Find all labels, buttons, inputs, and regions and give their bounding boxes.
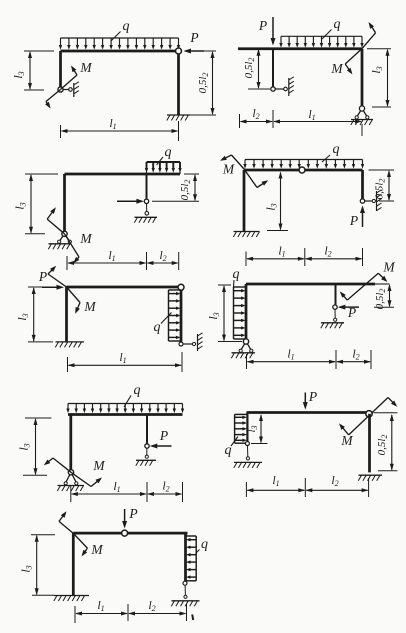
frame 5 right column: [180, 287, 183, 343]
frame 1 beam: [61, 50, 179, 53]
frame 4 left column: [243, 170, 246, 231]
svg-text:M: M: [92, 458, 105, 473]
frame 9 force P: [122, 506, 138, 529]
svg-text:P: P: [308, 389, 317, 404]
frame 2 dimension l3: [367, 49, 391, 107]
frame 1 distributed load q: [59, 38, 180, 50]
frame 6 left column: [245, 284, 248, 339]
frame 6 interior strut: [335, 284, 337, 305]
frame 9 dimension l2: [128, 598, 187, 621]
frame 9 distributed load q on column: [186, 536, 197, 581]
frame 3 left column: [63, 174, 66, 231]
svg-text:M: M: [382, 260, 395, 275]
frame 4 force P: [349, 206, 365, 229]
frame 3 beam: [65, 173, 181, 176]
frame 2 dimension l1: [273, 107, 362, 136]
frame 4 moment M: [220, 155, 268, 188]
svg-text:0,5l2: 0,5l2: [179, 180, 192, 201]
frame 8 dimension l2: [305, 473, 368, 497]
frame 2 distributed load q: [279, 36, 363, 47]
frame 1 top-right hinge: [176, 48, 182, 54]
frame 6 strut roller support: [321, 309, 344, 328]
frame 4 fixed support: [233, 232, 259, 238]
frame 9 left fixed support: [54, 596, 89, 602]
frame 7 dimension l3: [17, 418, 52, 475]
frame 7 strut roller support: [136, 448, 156, 466]
svg-text:l1: l1: [287, 347, 294, 362]
frame 4 dimension l2: [305, 244, 363, 267]
frame 7 left pin support: [57, 470, 84, 491]
frame 4 load label q: [322, 142, 340, 162]
svg-text:l1: l1: [113, 479, 120, 494]
frame 8 left column: [246, 413, 248, 443]
svg-text:q: q: [134, 383, 141, 398]
frame 5 fixed support: [55, 342, 84, 348]
frame 8 load label q: [225, 437, 239, 459]
frame 8 fixed support: [358, 475, 382, 481]
frame 4 dimension l3: [264, 172, 289, 231]
svg-text:q: q: [333, 142, 340, 157]
svg-text:l2: l2: [331, 473, 338, 488]
frame 9 moment M: [59, 511, 103, 557]
frame 1 left column: [59, 51, 62, 88]
svg-text:l2: l2: [159, 248, 166, 263]
svg-text:P: P: [349, 213, 358, 228]
frame 9 internal hinge: [122, 530, 128, 536]
frame 2 dimension l2: [240, 106, 274, 128]
svg-text:M: M: [340, 433, 353, 448]
frame 3 moment M: [47, 207, 92, 263]
frame 5 left column: [65, 287, 68, 342]
svg-text:q: q: [201, 537, 208, 552]
svg-text:l2: l2: [324, 244, 331, 259]
frame 5 load label q: [154, 313, 172, 336]
frame 1 moment M: [45, 60, 92, 109]
frame 8 force P: [303, 389, 317, 410]
svg-text:P: P: [38, 269, 47, 284]
svg-text:l3: l3: [15, 313, 30, 320]
svg-text:l2: l2: [148, 598, 155, 613]
frame 8 distributed load q on column: [235, 414, 248, 443]
stray ink mark: [192, 615, 193, 621]
frame 2 beam: [238, 47, 362, 50]
svg-text:l3: l3: [19, 565, 34, 572]
frame 2 hanger strut: [272, 49, 274, 87]
frame 6 left pin support: [231, 339, 255, 358]
frame 5 distributed load q on column: [169, 290, 182, 341]
frame 6 moment M: [340, 260, 396, 301]
svg-text:P: P: [159, 428, 168, 443]
frame 9 dimension l3: [19, 535, 56, 596]
frame 8 dimension l3: [246, 414, 268, 444]
frame 3 dimension l1: [67, 248, 147, 270]
frame 4 dimension 0,5l2: [369, 170, 395, 201]
frame 4 right hinge: [360, 199, 364, 203]
frame 7 load label q: [124, 383, 141, 407]
frame 4 distributed load q: [243, 160, 364, 169]
frame 5 dimension l1: [68, 350, 183, 372]
svg-text:0,5l2: 0,5l2: [374, 179, 387, 200]
frame 1 right column: [177, 51, 180, 115]
frame 4 beam: [244, 169, 363, 172]
svg-text:P: P: [347, 305, 356, 320]
frame 6 dimension l3: [206, 285, 242, 342]
frame 5 force P: [38, 269, 64, 290]
frame 1 force P: [184, 30, 205, 54]
svg-text:l3: l3: [11, 71, 26, 78]
frame 6 load label q: [233, 267, 240, 287]
svg-text:q: q: [233, 267, 240, 282]
svg-text:M: M: [90, 542, 103, 557]
frame 2 pin support: [351, 106, 373, 125]
frame 7 interior strut: [146, 415, 148, 445]
svg-text:l3: l3: [264, 203, 279, 210]
svg-text:l1: l1: [109, 116, 116, 131]
svg-text:M: M: [83, 299, 96, 314]
svg-text:l1: l1: [108, 248, 115, 263]
svg-text:0,5l2: 0,5l2: [243, 58, 256, 79]
frame 2 strut link support with wall: [275, 77, 294, 96]
svg-text:l3: l3: [17, 443, 32, 450]
svg-text:0,5l2: 0,5l2: [374, 289, 387, 310]
frame 9 beam: [73, 532, 187, 535]
frame 3 strut hinge with horizontal arrow: [117, 199, 149, 204]
frame 1 dimension 0,5l2: [185, 51, 216, 115]
frame 4 right link support with wall: [365, 190, 382, 211]
frame 8 beam: [247, 411, 369, 414]
frame 9 dimension l1: [75, 598, 128, 623]
frame 1 left hinge: [58, 87, 63, 92]
frame 9 right hinge and roller support: [171, 581, 199, 606]
svg-text:q: q: [154, 320, 161, 335]
frame 2 moment M: [330, 22, 375, 76]
frame 3 load label q: [157, 145, 172, 165]
frame 5 dimension l3: [15, 287, 53, 342]
svg-text:M: M: [330, 61, 343, 76]
frame 6 dimension 0,5l2: [374, 284, 394, 309]
frame 3 dimension 0,5l2: [152, 174, 199, 201]
svg-text:l2: l2: [162, 479, 169, 494]
frame 9 right column: [184, 533, 187, 581]
frame 4 right column: [361, 170, 364, 200]
svg-text:l2: l2: [252, 106, 259, 121]
svg-text:l1: l1: [97, 598, 104, 613]
svg-text:P: P: [128, 506, 137, 521]
frame 7 moment M: [44, 458, 106, 487]
frame 8 left hinge and roller support: [234, 442, 262, 468]
frame 1 dimension l1: [61, 116, 179, 141]
frame 9 left column: [72, 533, 75, 595]
frame 3 dimension l3: [13, 174, 59, 234]
frame 3 left pin support: [48, 231, 71, 249]
frame 7 left column: [69, 415, 72, 471]
frame 2 load label q: [322, 17, 341, 39]
frame 7 beam: [68, 413, 183, 416]
svg-text:q: q: [225, 443, 232, 458]
frame 1 fixed support: [167, 115, 190, 121]
frame 7 dimension l1: [71, 479, 147, 502]
frame 5 beam: [67, 286, 182, 289]
frame 2 strut hinge: [271, 87, 275, 91]
frame 2 right column: [361, 49, 364, 106]
frame 7 strut hinge with force P: [145, 428, 172, 449]
svg-text:l3: l3: [206, 312, 221, 319]
frame 6 beam: [246, 283, 390, 286]
svg-text:M: M: [79, 60, 92, 75]
frame 6 distributed load q on column: [234, 287, 247, 339]
frame 4 internal hinge: [299, 167, 305, 173]
svg-text:l2: l2: [352, 347, 359, 362]
svg-text:l1: l1: [278, 244, 285, 259]
frame 2 force P: [258, 17, 276, 46]
frame 1 load label q: [111, 19, 130, 41]
frame 3 dimension l2: [147, 248, 179, 270]
frame 9 load label q: [196, 537, 208, 553]
frame 6 dimension l1: [247, 347, 337, 370]
svg-text:q: q: [123, 19, 130, 34]
frame 8 dimension l1: [246, 473, 305, 497]
frame 3 cantilever load q: [145, 162, 182, 174]
svg-text:l1: l1: [308, 107, 315, 122]
svg-text:0,5l2: 0,5l2: [197, 73, 210, 94]
frame 8 right hinge: [366, 411, 372, 417]
frame 3 interior strut: [146, 174, 148, 199]
frame 1 left link support with wall: [63, 82, 79, 97]
frame 5 bottom link support with wall: [179, 333, 203, 351]
svg-text:P: P: [189, 30, 198, 45]
frame 8 right column: [368, 414, 371, 473]
frame 5 top-right hinge: [178, 284, 184, 290]
svg-text:l1: l1: [119, 350, 126, 365]
svg-text:P: P: [258, 18, 267, 33]
frame 5 moment M: [48, 266, 96, 314]
frame 4 dimension l1: [246, 244, 305, 267]
frame 7 dimension l2: [147, 479, 183, 503]
svg-text:M: M: [222, 162, 235, 177]
svg-text:q: q: [334, 17, 341, 32]
svg-text:q: q: [165, 145, 172, 160]
frame 6 dimension l2: [336, 347, 371, 370]
svg-text:0,5l2: 0,5l2: [376, 435, 389, 456]
frame 8 moment M: [339, 398, 397, 449]
frame 3 strut roller support: [134, 204, 157, 223]
svg-text:M: M: [79, 231, 92, 246]
frame 1 dimension l3: [11, 51, 54, 90]
svg-text:l3: l3: [369, 66, 384, 73]
frame 2 dimension 0,5l2: [243, 49, 270, 89]
frame 8 dimension 0,5l2: [374, 413, 398, 471]
frame 7 distributed load q: [66, 404, 184, 414]
svg-text:l3: l3: [13, 202, 28, 209]
frame 6 strut hinge with force P: [333, 305, 359, 320]
svg-text:l1: l1: [272, 473, 279, 488]
